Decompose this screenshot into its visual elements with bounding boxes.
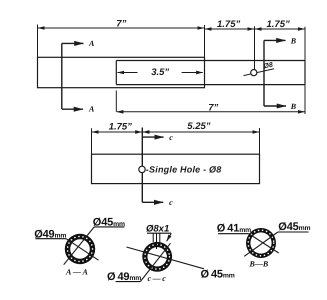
section line C — [142, 128, 163, 203]
svg-text:3.5”: 3.5” — [151, 67, 169, 78]
dimension 5.25in — [143, 131, 259, 133]
extension line mid right — [259, 128, 261, 154]
section C-C ring — [142, 242, 172, 272]
label O49mm C-C — [107, 271, 141, 283]
svg-text:B: B — [290, 37, 297, 46]
section A-A ring — [65, 234, 95, 264]
section line A — [62, 43, 84, 109]
part outline: right end vertical — [304, 61, 306, 85]
middle figure outline — [92, 154, 260, 183]
leader arrow O8x1 — [167, 233, 172, 241]
svg-text:7”: 7” — [116, 18, 126, 29]
svg-text:-Single Hole - Ø8: -Single Hole - Ø8 — [146, 164, 222, 174]
svg-text:c: c — [169, 133, 173, 142]
extension line hole center — [254, 26, 256, 69]
svg-text:c: c — [169, 198, 173, 207]
extension line step top — [204, 25, 206, 57]
section B-B cross lines — [244, 232, 278, 256]
svg-text:1.75”: 1.75” — [109, 121, 132, 132]
section line B — [264, 40, 286, 106]
label O8x1 — [146, 224, 171, 249]
extension line right top — [304, 27, 306, 61]
extension line bottom 7in left — [115, 91, 117, 112]
label O49mm A-A — [34, 228, 66, 240]
svg-text:A: A — [88, 39, 95, 48]
section B-B ring — [246, 228, 276, 258]
label O41mm B-B — [217, 223, 251, 235]
section C-C leader to O45mm — [127, 247, 205, 269]
part outline: bore end vertical — [115, 61, 117, 85]
section C-C cross line 45 — [140, 243, 170, 281]
part outline: bore bottom and right section bottom — [116, 84, 305, 86]
dimension 3.5in — [118, 72, 203, 74]
svg-text:A: A — [88, 104, 95, 113]
dimension 7in top — [38, 27, 204, 29]
single hole circle — [139, 166, 145, 172]
hole O8 circle — [251, 70, 257, 76]
part outline: bore top and right section top — [116, 60, 305, 62]
extension line left top — [37, 25, 39, 58]
label O45mm A-A — [93, 217, 125, 229]
svg-text:B—B: B—B — [249, 260, 269, 269]
hole O8 leader — [244, 69, 275, 76]
dimension 1.75in mid — [92, 131, 142, 133]
dimension 7in bottom — [117, 111, 305, 113]
svg-text:7”: 7” — [208, 103, 218, 114]
extension line right bottom — [304, 85, 306, 114]
dimension 1.75in second — [255, 28, 305, 30]
section A-A cross lines — [64, 227, 99, 265]
hole wall lines — [152, 233, 154, 242]
label O45mm B-B — [278, 221, 311, 233]
svg-text:c — c: c — c — [148, 274, 167, 283]
svg-text:B: B — [290, 102, 297, 111]
svg-text:1.75”: 1.75” — [267, 19, 290, 30]
dimension 1.75in first — [205, 28, 254, 30]
svg-text:A — A: A — A — [65, 268, 89, 277]
part outline: left tube section — [38, 57, 205, 87]
extension line mid left — [91, 128, 93, 154]
svg-text:1.75”: 1.75” — [217, 19, 240, 30]
svg-text:5.25”: 5.25” — [187, 121, 210, 132]
